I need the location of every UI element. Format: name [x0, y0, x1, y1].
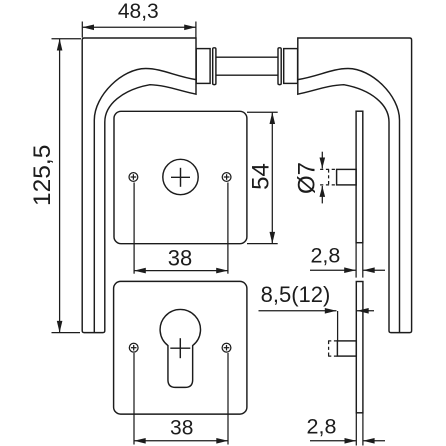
- svg-text:2,8: 2,8: [310, 244, 340, 268]
- dimension 8,5(12): [259, 282, 375, 341]
- bottom rosette right screw: [222, 343, 231, 352]
- PZ cylinder keyhole: [160, 309, 200, 387]
- right rosette disc edge: [278, 48, 281, 85]
- svg-text:48,3: 48,3: [118, 0, 159, 23]
- top stud dashed extension: [320, 168, 337, 170]
- bottom bar extension lines: [355, 413, 357, 446]
- bottom rosette side view bar: [356, 282, 363, 413]
- dimension 48,3: [82, 0, 196, 37]
- left bearing collar: [196, 49, 210, 84]
- bottom rosette left screw: [129, 343, 138, 352]
- left rosette disc edge: [213, 48, 216, 85]
- dimension Ø7: [294, 152, 326, 204]
- left handle outline: [82, 38, 196, 333]
- right bearing collar: [284, 49, 298, 84]
- top rosette front view: [114, 111, 247, 243]
- top rosette right screw: [222, 173, 231, 182]
- dimension 125,5: [29, 39, 81, 333]
- svg-text:125,5: 125,5: [29, 145, 56, 206]
- svg-text:8,5(12): 8,5(12): [261, 282, 331, 307]
- dimension 54: [247, 112, 278, 243]
- svg-text:38: 38: [170, 416, 193, 439]
- svg-text:38: 38: [168, 245, 192, 270]
- top rosette left screw: [129, 173, 138, 182]
- left handle inner contour: [94, 68, 196, 332]
- dimension 2,8 top: [310, 244, 385, 273]
- PZ cross: [170, 347, 190, 349]
- dimension 2,8 bottom: [307, 415, 385, 444]
- top stud solid: [337, 169, 357, 185]
- spindle: [216, 56, 278, 58]
- svg-text:Ø7: Ø7: [294, 162, 321, 194]
- bottom rosette front view: [114, 281, 247, 414]
- top rosette side view bar: [356, 111, 363, 243]
- handle hub circle: [163, 159, 198, 194]
- hub cross: [171, 176, 190, 178]
- bottom stud solid: [337, 341, 356, 356]
- dimension 38 top: [134, 183, 228, 274]
- dimension 38 bottom: [134, 353, 228, 445]
- right handle inner contour: [298, 68, 400, 332]
- svg-text:2,8: 2,8: [307, 415, 337, 439]
- bottom stud dashed extension: [328, 340, 337, 342]
- right handle outline: [298, 38, 412, 333]
- svg-text:54: 54: [248, 163, 275, 190]
- top bar extension lines: [355, 243, 357, 278]
